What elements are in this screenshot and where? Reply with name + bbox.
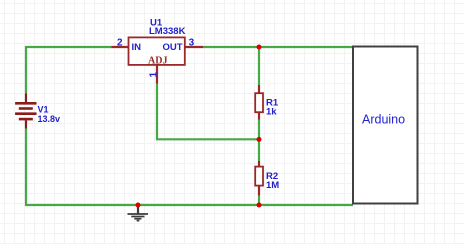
- node: ground junction: [136, 203, 141, 208]
- wire: node to R2 top: [258, 139, 260, 161]
- resistor R1: [258, 85, 260, 93]
- svg-text:3: 3: [189, 38, 195, 49]
- node: OUT/R1 junction: [257, 45, 262, 50]
- svg-text:1M: 1M: [266, 180, 279, 191]
- pin 2: [112, 46, 129, 48]
- svg-text:LM338K: LM338K: [149, 26, 186, 37]
- svg-text:1k: 1k: [266, 107, 277, 118]
- svg-text:V1: V1: [38, 105, 49, 115]
- wire: R2 bottom to rail: [258, 196, 260, 206]
- wire: OUT pin to Arduino: [203, 46, 353, 48]
- svg-text:IN: IN: [132, 42, 142, 53]
- svg-text:13.8v: 13.8v: [38, 114, 61, 124]
- wire: battery top to corner, up left side: [26, 47, 112, 94]
- svg-text:ADJ: ADJ: [148, 55, 167, 66]
- wire: vertical down to R1: [258, 47, 260, 85]
- node: R2/bottom rail junction: [257, 203, 262, 208]
- svg-text:2: 2: [117, 38, 123, 49]
- resistor R2: [258, 161, 260, 167]
- svg-text:OUT: OUT: [163, 42, 183, 53]
- Arduino block: [353, 47, 418, 204]
- node: R1/R2/ADJ junction: [257, 137, 262, 142]
- op-amp U1 box: [129, 37, 185, 65]
- svg-text:1: 1: [148, 72, 159, 78]
- pin 3: [185, 46, 203, 48]
- wire: ADJ pin down and right to node: [157, 84, 259, 140]
- wire: battery bottom, along bottom to Arduino: [26, 129, 353, 206]
- pin 1: [156, 65, 158, 84]
- svg-text:Arduino: Arduino: [362, 112, 405, 126]
- ground: [128, 205, 149, 221]
- wire: R1 bottom to node: [258, 120, 260, 140]
- battery V1: [15, 94, 36, 129]
